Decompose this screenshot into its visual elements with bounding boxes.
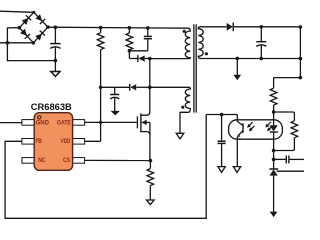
capacitor C5 FB filter	[218, 115, 226, 168]
optocoupler U2 body	[229, 120, 283, 139]
node primary phase dot	[183, 30, 186, 33]
node secondary ground tap	[236, 57, 240, 61]
shunt regulator U3 TL431	[269, 151, 278, 218]
ground sense resistor (open triangle)	[147, 200, 155, 205]
wire TL431 ref	[277, 170, 305, 172]
capacitor C3 VDD	[110, 87, 119, 111]
capacitor C2 snubber	[144, 28, 152, 51]
wire feedback top bar	[274, 77, 301, 79]
node C1 top	[54, 25, 58, 29]
resistor R4 parallel to LED	[274, 112, 298, 151]
wire HV rail	[48, 27, 189, 28]
wire AC input line 1	[0, 11, 34, 12]
svg-text:VDD: VDD	[61, 138, 71, 145]
optocoupler light arrows	[247, 122, 273, 131]
node bridge bottom vertex	[32, 41, 36, 45]
node opto LED bottom	[272, 149, 276, 153]
diode D1 snubber clamp	[129, 55, 149, 62]
wire FB node bar	[206, 114, 237, 116]
wire VDD pin	[85, 140, 101, 142]
diode D2 VDD rectifier	[130, 84, 150, 91]
node AC2 junction	[6, 41, 10, 45]
node drain-primary junction	[148, 57, 152, 61]
optocoupler phototransistor	[237, 115, 243, 168]
node snubber bottom	[128, 49, 132, 53]
resistor R2 snubber	[126, 28, 133, 59]
wire VDD line with diode D2	[101, 86, 130, 88]
node C1 bottom junction	[54, 59, 58, 63]
node opto LED top	[272, 110, 276, 114]
svg-text:GATE: GATE	[57, 119, 71, 126]
resistor R3 upper divider	[270, 78, 277, 112]
svg-text:FB: FB	[36, 138, 43, 145]
capacitor C6 compensation	[274, 155, 304, 163]
capacitor C1 bulk electrolytic	[50, 27, 60, 60]
ground C3 (filled arrow)	[111, 111, 120, 116]
node C4 bottom on 0V rail	[260, 57, 264, 61]
node secondary phase dot	[205, 52, 208, 55]
node feedback top right	[299, 76, 303, 80]
diode D3 output rectifier	[200, 23, 300, 32]
bridge rectifier BD1 diamond	[19, 12, 48, 43]
ground C5 (open triangle)	[218, 167, 225, 173]
node bridge top vertex	[32, 11, 35, 14]
node TL431 comp tap	[272, 158, 276, 162]
bridge diode D-BR (bottom to right)	[35, 31, 45, 41]
svg-text:NC: NC	[38, 157, 46, 164]
transformer T1 secondary winding	[198, 27, 300, 59]
bridge diode D-TR (top to right)	[35, 14, 45, 24]
node C2 top on rail	[146, 26, 150, 30]
ground aux winding (open triangle)	[176, 133, 184, 139]
wire FB loop	[5, 115, 206, 219]
node rail tee	[299, 57, 303, 61]
node drain/aux 4-way junction	[148, 86, 152, 90]
IC U1 pin labels	[36, 119, 71, 163]
node R1 top on rail	[99, 26, 103, 30]
svg-text:GND: GND	[36, 119, 50, 126]
transformer T1 aux winding	[150, 87, 191, 134]
svg-text:CR6863B: CR6863B	[31, 102, 73, 112]
transformer T1 primary winding	[150, 28, 191, 58]
node bridge right vertex	[46, 25, 50, 29]
wire snubber bottom bar	[129, 50, 147, 52]
transformer T1 core	[194, 24, 196, 112]
node VDD line left	[99, 86, 103, 90]
wire to primary ground bus	[7, 43, 55, 61]
bridge diode D-BL (left to bottom)	[20, 29, 30, 39]
ground opto emitter (open triangle)	[233, 167, 240, 173]
transistor Q1 MOSFET	[137, 112, 150, 161]
node gate line crossing	[99, 121, 102, 124]
optocoupler LED	[269, 112, 278, 151]
node source/CS junction	[149, 159, 153, 163]
wire CS pin	[85, 159, 151, 161]
wire Vout+ right corner	[299, 27, 301, 78]
resistor R1 startup	[97, 28, 104, 142]
node bridge left vertex	[18, 26, 22, 30]
ground primary (open triangle)	[51, 61, 60, 77]
svg-text:CS: CS	[63, 157, 70, 164]
wire left vertex branch	[7, 28, 19, 43]
IC U1 CR6863B body	[22, 113, 85, 171]
wire AC input line 2	[0, 42, 34, 44]
node aux phase dot	[181, 106, 184, 109]
node output diode/cap junction	[260, 25, 264, 29]
bridge diode D-TL (left to top)	[22, 15, 32, 25]
wire GATE to MOSFET	[85, 121, 138, 123]
wire GND pin	[0, 122, 22, 124]
ground secondary (filled triangle)	[233, 58, 241, 80]
wire drain vertical	[149, 59, 151, 113]
node R2 top on rail	[128, 26, 132, 30]
capacitor C4 output electrolytic	[256, 27, 266, 59]
node FB cap tap	[220, 113, 224, 117]
node Vout corner	[299, 25, 303, 29]
resistor R5 current sense	[147, 161, 154, 201]
